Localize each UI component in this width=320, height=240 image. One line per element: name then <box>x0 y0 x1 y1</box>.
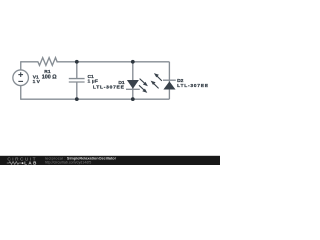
CircuitLab logo resistor zigzag <box>7 162 21 165</box>
capacitor C1 plates <box>69 78 85 80</box>
V1 plus sign <box>18 72 23 77</box>
LED D1 triangle (pointing down) <box>127 80 139 89</box>
capacitor C1 branch: top stub <box>76 62 78 78</box>
svg-text:LTL-307EE: LTL-307EE <box>177 83 209 89</box>
junction dot bottom C1 <box>75 97 79 101</box>
CircuitLab logo node dot <box>22 162 24 164</box>
footer black bar <box>0 156 220 165</box>
LED D1 emission arrow 2 <box>139 85 147 93</box>
LED D2 emission arrow 1 <box>154 73 162 81</box>
LED D2 branch wire <box>168 62 170 99</box>
wire left rail bottom stub <box>20 85 22 99</box>
capacitor C1 bottom stub <box>76 82 78 99</box>
LED D1 emission arrow 1 <box>140 79 148 87</box>
LED D1 branch wire <box>132 62 134 99</box>
wire top rail with resistor R1 zigzag <box>21 58 170 66</box>
LED D2 cathode bar <box>163 79 176 81</box>
LED D1 cathode bar <box>126 88 140 90</box>
V1 minus sign <box>18 80 23 82</box>
junction dot top D1 <box>131 60 135 64</box>
wire left rail top stub <box>20 61 22 70</box>
wire bottom rail <box>21 98 170 100</box>
svg-text:LAB: LAB <box>24 161 38 165</box>
svg-text:http://circuitlab.com/cyd14df5: http://circuitlab.com/cyd14df5 <box>45 161 92 165</box>
LED D2 triangle (pointing up) <box>163 81 175 89</box>
junction dot bottom D1 <box>131 97 135 101</box>
svg-text:LTL-307EE: LTL-307EE <box>93 84 125 90</box>
svg-text:1 µF: 1 µF <box>88 79 98 85</box>
voltage source V1 circle <box>13 70 29 86</box>
junction dot top C1 <box>75 60 79 64</box>
LED D2 emission arrow 2 <box>151 81 159 89</box>
svg-text:1 V: 1 V <box>33 79 41 85</box>
svg-text:100 Ω: 100 Ω <box>42 75 57 81</box>
